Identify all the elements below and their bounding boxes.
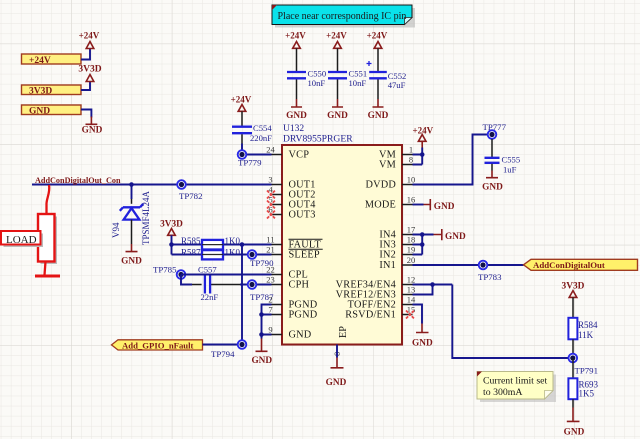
wire port 3V3D to power symbol	[81, 82, 90, 91]
ground (TOFF/EN2)	[412, 324, 433, 349]
no-connect X pin 6	[267, 211, 275, 219]
svg-text:GND: GND	[564, 428, 585, 438]
IC U132 DRV8955PRGER body	[282, 124, 402, 345]
test point TP790	[248, 250, 274, 268]
svg-text:3V3D: 3V3D	[78, 65, 101, 75]
svg-text:TP794: TP794	[211, 349, 235, 359]
svg-text:Current limit set: Current limit set	[483, 376, 547, 387]
svg-text:10nF: 10nF	[349, 78, 367, 88]
svg-text:GND: GND	[434, 202, 455, 212]
svg-text:GND: GND	[286, 111, 307, 121]
capacitor C557 22nF	[192, 265, 240, 302]
port GND	[22, 105, 82, 116]
svg-text:DVDD: DVDD	[365, 180, 396, 191]
svg-text:1K5: 1K5	[579, 389, 595, 399]
U132 pin 20 IN1	[379, 255, 415, 271]
svg-text:GND: GND	[29, 106, 50, 116]
svg-text:14: 14	[407, 294, 416, 304]
svg-text:+24V: +24V	[231, 95, 252, 105]
svg-text:13: 13	[407, 284, 416, 294]
test point TP785	[153, 265, 185, 279]
wire 3V3D to R587	[172, 254, 202, 256]
test point TP783	[478, 261, 502, 282]
junction (IN3)	[420, 242, 425, 247]
U132 pin 10 DVDD	[365, 174, 415, 190]
svg-text:U132: U132	[283, 124, 304, 134]
svg-text:+24V: +24V	[326, 31, 347, 41]
svg-text:C555: C555	[502, 155, 521, 165]
U132 pin 4 OUT2	[268, 184, 315, 200]
capacitor C551	[328, 48, 367, 99]
wire EP to ground	[336, 345, 338, 358]
svg-text:GND: GND	[326, 378, 347, 388]
svg-text:TP791: TP791	[575, 366, 598, 376]
wire flag to TP794	[203, 344, 238, 346]
svg-text:TP785: TP785	[153, 265, 177, 275]
svg-text:1: 1	[409, 144, 413, 154]
U132 pin 19 IN2	[379, 244, 415, 260]
power +24V (above C552)	[367, 31, 388, 49]
svg-text:1uF: 1uF	[503, 165, 517, 175]
power 3V3D (top-left)	[78, 65, 101, 82]
wire port GND to ground	[81, 110, 91, 118]
svg-text:23: 23	[266, 274, 275, 284]
power +24V (top-left)	[79, 31, 100, 49]
test point TP791 (junction)	[569, 354, 598, 376]
wire R587 to pin 21	[224, 254, 272, 256]
ground (IN4 pin, bar style)	[434, 229, 466, 242]
test point TP782	[177, 180, 202, 201]
svg-text:+24V: +24V	[285, 31, 306, 41]
svg-text:3V3D: 3V3D	[29, 86, 52, 96]
U132 pin 8 VM	[379, 154, 413, 170]
svg-text:RSVD/EN1: RSVD/EN1	[345, 310, 396, 321]
junction (IN4)	[420, 232, 425, 237]
wire TP785 down to CPH line	[181, 275, 192, 285]
net AddConDigitalOut_Con wire	[32, 184, 272, 186]
junction (diode branch)	[129, 182, 134, 187]
svg-text:18: 18	[407, 234, 416, 244]
wire IN1 to net flag	[413, 264, 524, 266]
svg-text:SLEEP: SLEEP	[289, 250, 320, 261]
ground (C555)	[482, 171, 503, 193]
svg-text:1K0: 1K0	[225, 248, 241, 258]
U132 pin 14 TOFF/EN2	[348, 294, 416, 310]
svg-text:GND: GND	[445, 232, 466, 242]
svg-text:GND: GND	[251, 356, 272, 366]
U132 pin 5 OUT4	[268, 194, 315, 210]
svg-text:GND: GND	[327, 111, 348, 121]
svg-text:GND: GND	[412, 339, 433, 349]
diode V94 TPSMF4L24A	[111, 185, 151, 246]
U132 pin EP (exposed pad)	[332, 326, 349, 356]
ground (port GND)	[82, 117, 103, 136]
wire IN4/IN3/IN2 tie	[413, 235, 423, 255]
svg-text:11K: 11K	[578, 330, 594, 340]
svg-text:24: 24	[266, 144, 275, 154]
svg-text:20: 20	[407, 255, 416, 265]
svg-text:19: 19	[407, 244, 416, 254]
wire junction to R693	[572, 358, 574, 378]
wire port +24V to power symbol	[81, 49, 90, 60]
wire TOFF/EN2 to ground	[413, 305, 423, 324]
svg-text:8: 8	[409, 154, 413, 164]
svg-text:GND: GND	[482, 183, 503, 193]
svg-text:10nF: 10nF	[308, 78, 326, 88]
power +24V (above C550)	[285, 31, 306, 49]
U132 pin 2 PGND	[268, 294, 317, 310]
U132 pin 6 OUT3	[268, 204, 315, 220]
svg-text:AddConDigitalOut: AddConDigitalOut	[533, 260, 605, 270]
ground (MODE pin, bar style)	[424, 199, 455, 212]
port +24V	[22, 54, 82, 66]
junction (FAULT net branch)	[240, 242, 245, 247]
svg-text:C554: C554	[253, 123, 272, 133]
wire 3V3D to R584	[572, 297, 574, 318]
svg-text:C557: C557	[198, 265, 217, 275]
note N2 "Current limit set to 300mA"	[477, 372, 556, 403]
svg-text:+24V: +24V	[367, 31, 388, 41]
test point TP794	[211, 340, 246, 359]
resistor R693 1K5	[568, 378, 598, 399]
net label flag Add_GPIO_nFault	[112, 340, 203, 351]
wire (red freehand) load bottom stem	[45, 262, 46, 276]
svg-text:+24V: +24V	[413, 126, 434, 136]
U132 pin 9 GND	[268, 324, 311, 340]
svg-text:TP783: TP783	[478, 272, 502, 282]
power +24V (VM pins)	[413, 126, 434, 148]
svg-text:EP: EP	[338, 326, 349, 338]
U132 pin 17 IN4	[379, 224, 415, 240]
svg-text:10: 10	[407, 174, 416, 184]
test point TP777	[483, 122, 507, 139]
wire VREF34/EN4 run	[413, 284, 453, 286]
svg-text:R584: R584	[578, 320, 598, 330]
ground (C552)	[368, 99, 389, 121]
power +24V (above C554)	[231, 95, 252, 112]
svg-text:220nF: 220nF	[250, 133, 272, 143]
wire 3V3D stem	[171, 235, 173, 254]
wire MODE to ground	[413, 204, 424, 206]
svg-text:9: 9	[268, 324, 272, 334]
wire 3V3D to R585	[172, 244, 202, 246]
net label flag AddConDigitalOut	[524, 259, 638, 270]
wire R693 to ground	[572, 399, 574, 407]
U132 pin 13 VREF12/EN3	[336, 284, 416, 300]
svg-text:15: 15	[407, 304, 416, 314]
wire VREF12/EN3 up to pin 12 line	[413, 285, 433, 295]
svg-text:IN1: IN1	[379, 260, 396, 271]
svg-text:VM: VM	[379, 160, 396, 171]
svg-text:+24V: +24V	[79, 31, 100, 41]
U132 pin 3 OUT1	[268, 174, 315, 190]
ground (C551)	[327, 99, 348, 121]
U132 pin 15 RSVD/EN1	[345, 304, 415, 320]
load bottom terminal bar	[35, 275, 60, 278]
wire C554 to VCP pin	[242, 144, 272, 155]
resistor R585 1K0	[181, 236, 240, 250]
U132 pin 1 VM	[379, 144, 413, 160]
test point TP779	[238, 150, 262, 167]
test point TP787	[248, 280, 274, 302]
svg-text:CPH: CPH	[289, 280, 310, 291]
U132 pin 12 VREF34/EN4	[336, 274, 416, 290]
load label box LOAD	[1, 231, 43, 247]
svg-text:+24V: +24V	[29, 56, 51, 66]
svg-text:MODE: MODE	[365, 200, 396, 211]
U132 pin 16 MODE	[365, 194, 415, 210]
power +24V (above C551)	[326, 31, 347, 49]
U132 pin 23 CPH	[266, 274, 309, 290]
ground (diode V94)	[121, 244, 142, 267]
svg-text:16: 16	[407, 194, 416, 204]
svg-text:DRV8955PRGER: DRV8955PRGER	[283, 134, 353, 145]
junction (pin 7)	[259, 312, 264, 317]
svg-text:LOAD: LOAD	[6, 234, 37, 246]
junction (VREF pins)	[430, 282, 435, 287]
resistor R584 11K	[568, 318, 598, 340]
svg-text:AddConDigitalOut_Con: AddConDigitalOut_Con	[35, 176, 121, 185]
capacitor C555 1uF	[485, 139, 521, 175]
wire CPL line	[181, 274, 272, 276]
svg-text:17: 17	[407, 224, 416, 234]
capacitor C550	[287, 48, 326, 99]
junction (pin 9)	[259, 332, 264, 337]
svg-text:Add_GPIO_nFault: Add_GPIO_nFault	[122, 341, 194, 351]
svg-text:OUT3: OUT3	[289, 210, 316, 221]
U132 pin 21 SLEEP	[266, 244, 322, 260]
U132 pin 22 CPL	[266, 264, 308, 280]
U132 pin 7 PGND	[268, 304, 317, 320]
note N1 "Place near corresponding IC pin"	[272, 5, 415, 28]
svg-text:21: 21	[266, 244, 275, 254]
junction (3V3D / R585)	[169, 242, 174, 247]
ground (PGND pins)	[251, 339, 272, 367]
no-connect X pin 5	[267, 201, 275, 209]
wire R584 to junction	[572, 339, 574, 358]
svg-text:7: 7	[268, 304, 272, 314]
svg-text:VCP: VCP	[289, 150, 310, 161]
svg-text:GND: GND	[121, 257, 142, 267]
port 3V3D	[22, 85, 82, 96]
capacitor C552 (polarized)	[367, 48, 407, 99]
svg-text:2: 2	[268, 294, 272, 304]
wire DVDD to TP777	[413, 135, 488, 185]
ground (EP)	[326, 358, 347, 389]
svg-text:R587: R587	[181, 248, 201, 258]
capacitor C554	[232, 111, 272, 143]
svg-text:PGND: PGND	[289, 310, 318, 321]
U132 pin 24 VCP	[266, 144, 309, 160]
svg-text:3: 3	[268, 174, 272, 184]
svg-text:TP779: TP779	[238, 158, 262, 168]
U132 pin 18 IN3	[379, 234, 415, 250]
svg-text:IN2: IN2	[379, 250, 396, 261]
wire IN4 to ground	[413, 234, 434, 236]
svg-text:V94: V94	[111, 222, 121, 238]
U132 pin 11 FAULT	[266, 234, 322, 250]
load element body	[38, 214, 57, 264]
wire R585 to pin 11	[224, 244, 272, 246]
resistor R587 1K0	[181, 248, 240, 260]
wire PGND/GND pins bus	[262, 305, 272, 339]
svg-text:TPSMF4L24A: TPSMF4L24A	[141, 190, 151, 245]
ground (divider bottom)	[564, 408, 585, 438]
svg-text:GND: GND	[289, 330, 312, 341]
svg-text:47uF: 47uF	[388, 80, 406, 90]
junction (VM pin 1)	[420, 152, 425, 157]
wire (red freehand) load to net	[46, 185, 49, 214]
svg-text:GND: GND	[82, 126, 103, 136]
wire VREF net down to divider	[452, 285, 573, 359]
wire FAULT net vertical to TP794	[241, 245, 243, 345]
svg-text:11: 11	[266, 234, 274, 244]
svg-text:R585: R585	[181, 236, 201, 246]
svg-text:to 300mA: to 300mA	[483, 387, 522, 398]
no-connect X pin 15	[406, 311, 414, 319]
svg-text:GND: GND	[368, 111, 389, 121]
svg-text:12: 12	[407, 274, 416, 284]
power 3V3D (left, resistor pullups)	[160, 220, 183, 236]
power 3V3D (divider top)	[562, 282, 585, 298]
svg-text:22: 22	[266, 264, 275, 274]
ground (C550)	[286, 99, 307, 121]
svg-text:TP782: TP782	[179, 191, 202, 201]
wire C557 to pin 23	[240, 284, 272, 286]
svg-text:TP777: TP777	[483, 122, 507, 132]
svg-text:22nF: 22nF	[201, 292, 219, 302]
wire +24V to VM pins 1/8	[413, 148, 423, 165]
svg-text:Place near corresponding IC pi: Place near corresponding IC pin	[278, 11, 407, 22]
no-connect X pin 4	[267, 191, 275, 199]
